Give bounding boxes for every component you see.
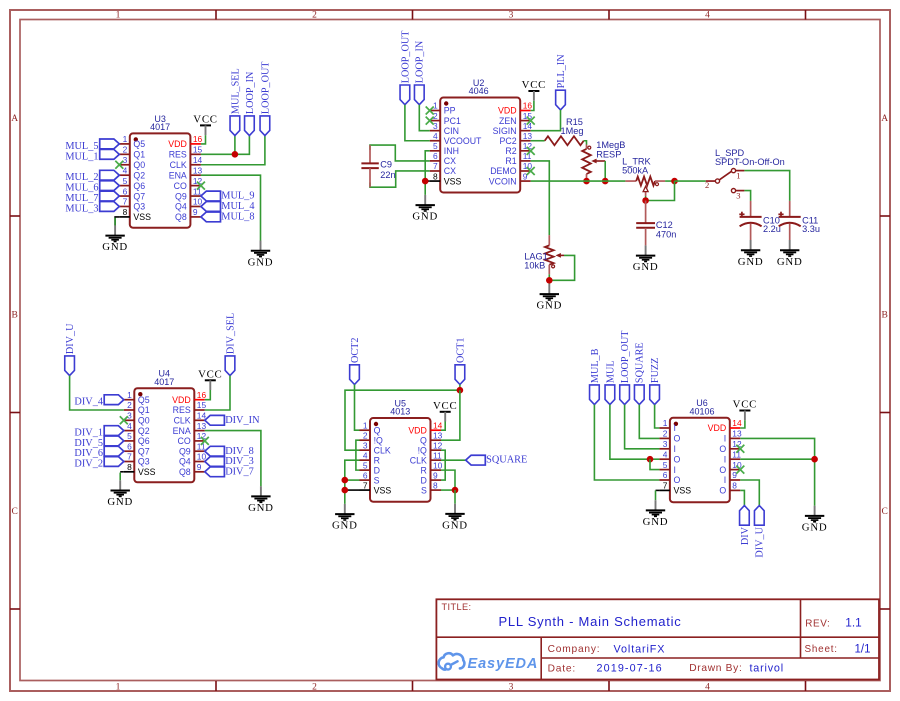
U4 pin 11 (Q9) <box>179 441 206 456</box>
no-connect X U4 pin12 <box>201 437 209 445</box>
svg-text:OCT2: OCT2 <box>350 338 361 363</box>
U2 pin 14 (SIGIN) <box>493 121 533 136</box>
switch L_SPD (SPDT-On-Off-On) <box>705 148 785 200</box>
svg-text:7: 7 <box>123 197 128 207</box>
svg-text:GND: GND <box>777 256 803 268</box>
U5 pin 13 (Q) <box>420 430 443 445</box>
ground LAG1 <box>536 284 562 312</box>
junction RES/MUL_SEL <box>232 151 239 158</box>
svg-text:VDD: VDD <box>708 423 727 433</box>
svg-text:2.2u: 2.2u <box>763 224 781 234</box>
U3 pin 8 (VSS) <box>119 207 151 222</box>
svg-text:2: 2 <box>123 145 128 155</box>
U4 pin 15 (RES) <box>173 400 207 415</box>
svg-text:VCOIN: VCOIN <box>489 176 517 186</box>
svg-text:MUL_7: MUL_7 <box>65 193 98 204</box>
svg-text:O: O <box>674 454 681 464</box>
U2 pin 7 (CX) <box>430 161 456 176</box>
ground U3 ENA <box>248 241 274 269</box>
net flag DIV_U <box>65 323 76 376</box>
U5 pin 3 (CLK) <box>360 440 391 455</box>
U4 pin 3 (Q0) <box>124 411 150 426</box>
junction LTRK right <box>671 178 678 185</box>
svg-text:4017: 4017 <box>150 122 170 132</box>
svg-text:12: 12 <box>433 440 443 450</box>
svg-text:4: 4 <box>663 449 668 459</box>
U4 pin 16 (VDD) <box>172 390 206 405</box>
wire U5 S6 join <box>345 479 360 481</box>
svg-text:PC1: PC1 <box>444 116 461 126</box>
svg-text:Q1: Q1 <box>138 405 150 415</box>
U4 pin 13 (ENA) <box>173 421 207 436</box>
wire LOOP_OUT to VCOOUT <box>405 105 430 141</box>
U2 pin 8 (VSS) <box>430 171 462 186</box>
svg-text:O: O <box>674 475 681 485</box>
wire LOOP_OUT to pin3 <box>625 405 660 449</box>
svg-text:4: 4 <box>705 683 710 693</box>
junction U2 VSS/INH <box>422 178 429 185</box>
U5 pin 2 (!Q) <box>360 430 384 445</box>
svg-text:Q2: Q2 <box>133 170 145 180</box>
net flag MUL_7 <box>65 191 119 204</box>
U2 pin 3 (CIN) <box>430 121 459 136</box>
wire LAG1 bottom <box>548 274 550 284</box>
svg-text:Q9: Q9 <box>179 446 191 456</box>
wire U5 !Q12 to D9 <box>441 450 445 480</box>
wire U6 VDD to VCC <box>740 420 745 428</box>
svg-text:MUL_5: MUL_5 <box>65 141 98 152</box>
svg-text:GND: GND <box>633 261 659 273</box>
svg-text:OCT1: OCT1 <box>455 338 466 363</box>
net flag LOOP_OUT <box>400 30 411 105</box>
U3 pin 14 (CLK) <box>170 155 203 170</box>
wire RESP wiper to rail <box>604 161 606 181</box>
net flag DIV_6 <box>74 446 123 459</box>
svg-text:I: I <box>674 465 676 475</box>
svg-text:2: 2 <box>705 180 709 190</box>
svg-text:REV:: REV: <box>805 619 830 630</box>
net flag DIV_1 <box>74 426 123 439</box>
ground C11 <box>777 240 803 268</box>
wire U4 VDD to VCC <box>205 390 211 400</box>
U6 pin 1 (I) <box>659 418 676 433</box>
U3 pin 15 (RES) <box>169 145 203 160</box>
net flag DIV_SEL <box>225 313 236 376</box>
net flag MUL_B <box>590 348 601 404</box>
svg-text:Q: Q <box>420 435 427 445</box>
IC U2 (4046) <box>430 78 533 193</box>
svg-text:VCC: VCC <box>198 368 222 380</box>
svg-text:3: 3 <box>127 411 132 421</box>
wire OCT1 to Q13 <box>441 390 460 440</box>
svg-text:DEMO: DEMO <box>490 166 517 176</box>
svg-text:13: 13 <box>732 429 742 439</box>
svg-text:CLK: CLK <box>170 160 187 170</box>
power VCC U2 <box>522 79 546 101</box>
svg-text:11: 11 <box>197 441 206 451</box>
U2 pin 16 (VDD) <box>498 101 532 116</box>
svg-text:9: 9 <box>197 462 202 472</box>
svg-text:GND: GND <box>442 520 468 532</box>
wire U6 VSS drop <box>655 490 657 500</box>
svg-text:D: D <box>374 465 380 475</box>
svg-text:VDD: VDD <box>168 139 187 149</box>
svg-text:9: 9 <box>433 470 438 480</box>
net flag DIV_8 <box>205 446 254 457</box>
svg-text:C: C <box>12 507 18 517</box>
svg-text:R2: R2 <box>505 146 516 156</box>
svg-text:3: 3 <box>509 11 514 21</box>
svg-text:Company:: Company: <box>548 644 601 655</box>
net flag DIV_4 <box>74 395 123 408</box>
svg-text:Q1: Q1 <box>133 150 145 160</box>
U4 pin 5 (Q6) <box>124 431 150 446</box>
svg-text:15: 15 <box>197 400 207 410</box>
net flag OCT2 <box>350 338 361 385</box>
net flag MUL_6 <box>65 181 119 194</box>
junction OCT1 node <box>457 387 464 394</box>
svg-text:tarivol: tarivol <box>750 663 784 675</box>
svg-text:3: 3 <box>363 440 368 450</box>
svg-text:11: 11 <box>433 450 442 460</box>
U5 pin 4 (R) <box>360 450 380 465</box>
svg-text:9: 9 <box>732 470 737 480</box>
wire U4 VSS drop <box>119 473 121 481</box>
no-connect X U2 pin1 <box>426 107 434 115</box>
svg-text:GND: GND <box>738 256 764 268</box>
ground U6 VSS <box>643 500 669 528</box>
svg-text:VSS: VSS <box>138 467 156 477</box>
no-connect X U4 pin3 <box>120 416 128 424</box>
U6 pin 10 (O) <box>719 460 742 475</box>
svg-text:4: 4 <box>127 421 132 431</box>
svg-text:Q5: Q5 <box>133 139 145 149</box>
svg-text:DIV_SEL: DIV_SEL <box>225 313 236 354</box>
wire U2 VDD to VCC <box>531 101 534 111</box>
svg-text:MUL_SEL: MUL_SEL <box>230 68 241 114</box>
wire OCT2 to Q1 <box>355 385 360 431</box>
svg-text:Sheet:: Sheet: <box>805 644 838 655</box>
svg-text:14: 14 <box>433 420 443 430</box>
IC U5 (4013) <box>360 398 443 501</box>
title block <box>436 599 879 679</box>
wire pin4 to pin5 <box>650 459 659 469</box>
U2 pin 1 (PP) <box>430 101 456 116</box>
svg-text:2: 2 <box>433 111 438 121</box>
no-connect X U6 pin10 <box>736 466 744 474</box>
wire VCOIN rail <box>531 180 626 182</box>
svg-text:MUL_2: MUL_2 <box>65 172 98 183</box>
wire L_TRK right <box>665 180 674 182</box>
svg-text:16: 16 <box>523 101 533 111</box>
svg-text:VCC: VCC <box>193 114 217 126</box>
U3 pin 10 (Q4) <box>175 197 203 212</box>
svg-text:40106: 40106 <box>689 406 714 416</box>
svg-text:DIV_U: DIV_U <box>755 526 766 557</box>
net flag DIV_U <box>754 506 765 558</box>
svg-text:7: 7 <box>363 480 368 490</box>
wire U6 pin8 to DIV <box>740 490 744 505</box>
no-connect X U3 pin3 <box>115 161 123 169</box>
svg-text:SPDT-On-Off-On: SPDT-On-Off-On <box>715 157 785 167</box>
svg-text:DIV: DIV <box>740 526 751 545</box>
svg-text:SIGIN: SIGIN <box>493 126 517 136</box>
svg-text:LOOP_IN: LOOP_IN <box>415 40 426 83</box>
wire U6 pin11 gnd <box>740 458 814 460</box>
svg-text:11: 11 <box>193 186 202 196</box>
svg-text:I: I <box>724 454 726 464</box>
U4 pin 6 (Q7) <box>124 441 150 456</box>
wire U5 right gnd drop <box>454 490 456 504</box>
svg-text:MUL_B: MUL_B <box>590 348 601 383</box>
net flag MUL_5 <box>65 139 119 152</box>
svg-text:16: 16 <box>193 134 203 144</box>
U3 pin 5 (Q6) <box>119 176 145 191</box>
svg-text:Q3: Q3 <box>133 202 145 212</box>
svg-text:10: 10 <box>433 460 443 470</box>
U3 pin 13 (ENA) <box>169 165 203 180</box>
svg-text:8: 8 <box>433 480 438 490</box>
svg-text:Q3: Q3 <box>138 457 150 467</box>
svg-text:5: 5 <box>433 141 438 151</box>
net flag MUL_8 <box>201 212 255 223</box>
svg-text:GND: GND <box>802 522 828 534</box>
svg-text:6: 6 <box>123 186 128 196</box>
wire PC2 to R15 <box>531 140 545 142</box>
net flag MUL_1 <box>65 149 119 162</box>
wire SQUARE to pin2 <box>639 405 659 439</box>
potentiometer L_TRK (500kA) <box>622 157 665 196</box>
svg-text:11: 11 <box>732 449 741 459</box>
svg-text:1: 1 <box>736 171 740 181</box>
U3 pin 3 (Q0) <box>119 155 145 170</box>
svg-text:RESP: RESP <box>596 149 621 159</box>
U4 pin 8 (VSS) <box>124 462 156 477</box>
potentiometer LAG1 (10kB) <box>524 235 564 274</box>
U5 pin 8 (S) <box>421 480 441 495</box>
svg-text:GND: GND <box>107 496 133 508</box>
junction U6 rightgnd <box>811 456 818 463</box>
svg-text:PP: PP <box>444 106 456 116</box>
svg-text:1: 1 <box>127 390 132 400</box>
wire MUL_B to pin6 <box>594 405 659 480</box>
U2 pin 10 (DEMO) <box>490 161 532 176</box>
svg-text:GND: GND <box>248 256 274 268</box>
svg-text:22n: 22n <box>380 170 395 180</box>
ground U4 ENA <box>248 486 274 514</box>
net flag MUL_2 <box>65 170 119 183</box>
svg-text:9: 9 <box>193 207 198 217</box>
svg-text:RES: RES <box>173 405 191 415</box>
net flag MUL_4 <box>201 201 255 212</box>
U2 pin 2 (PC1) <box>430 111 461 126</box>
U6 pin 13 (I) <box>724 429 742 444</box>
svg-text:R: R <box>421 465 427 475</box>
wire LOOP_IN to CIN <box>419 105 429 131</box>
svg-text:1: 1 <box>433 101 438 111</box>
power VCC U4 <box>198 368 222 390</box>
wire OCT1 to CLK3 <box>345 390 460 450</box>
wire R1 to LAG1 <box>531 161 550 235</box>
net flag MUL_3 <box>65 202 119 215</box>
svg-text:Q0: Q0 <box>133 160 145 170</box>
wire R15 to RESP <box>584 141 587 145</box>
svg-text:8: 8 <box>127 462 132 472</box>
svg-text:14: 14 <box>732 418 742 428</box>
svg-text:VDD: VDD <box>498 106 517 116</box>
U2 pin 4 (VCOOUT) <box>430 131 482 146</box>
wire U3 VSS gnd drop <box>114 218 116 226</box>
wire sw1 to C11 <box>744 171 789 201</box>
wire U4 VSS <box>120 471 124 473</box>
ground U5 left <box>332 504 358 532</box>
net flag DIV <box>740 506 751 546</box>
no-connect X U6 pin12 <box>736 445 744 453</box>
potentiometer RESP (1MegB) <box>582 140 625 181</box>
svg-text:4: 4 <box>433 131 438 141</box>
svg-text:CLK: CLK <box>410 455 427 465</box>
U6 pin 4 (O) <box>659 449 680 464</box>
svg-text:PLL_IN: PLL_IN <box>556 54 567 89</box>
svg-text:CLK: CLK <box>174 416 191 426</box>
U4 pin 4 (Q2) <box>124 421 150 436</box>
capacitor C11 (3.3u) polarized <box>778 201 820 240</box>
ground C10 <box>738 240 764 268</box>
svg-text:Drawn By:: Drawn By: <box>689 663 742 674</box>
wire U3 VSS to GND <box>115 217 119 225</box>
wire U6 VSS <box>656 489 660 491</box>
svg-text:6: 6 <box>433 151 438 161</box>
U6 pin 3 (I) <box>659 439 676 454</box>
svg-text:13: 13 <box>523 131 533 141</box>
U6 pin 2 (O) <box>659 429 680 444</box>
U4 pin 2 (Q1) <box>124 400 150 415</box>
wire U5 R4 down <box>345 460 360 504</box>
svg-text:Q: Q <box>374 425 381 435</box>
net flag DIV_7 <box>205 466 254 477</box>
net flag LOOP_OUT <box>260 61 271 136</box>
U2 pin 9 (VCOIN) <box>489 171 531 186</box>
svg-text:MUL_1: MUL_1 <box>65 151 98 162</box>
svg-text:Date:: Date: <box>548 663 576 674</box>
svg-text:A: A <box>11 114 18 124</box>
svg-text:O: O <box>719 465 726 475</box>
svg-text:5: 5 <box>127 431 132 441</box>
svg-text:1: 1 <box>116 683 121 693</box>
net flag FUZZ <box>650 358 661 405</box>
svg-text:!Q: !Q <box>418 445 427 455</box>
svg-text:CO: CO <box>174 181 187 191</box>
svg-text:CX: CX <box>444 166 456 176</box>
wire U2 VSS join <box>425 180 430 182</box>
svg-text:7: 7 <box>663 481 668 491</box>
wire U5 R10 down <box>441 470 455 490</box>
svg-text:CIN: CIN <box>444 126 459 136</box>
svg-text:3: 3 <box>736 191 740 201</box>
svg-text:VSS: VSS <box>374 485 392 495</box>
svg-text:VCC: VCC <box>433 400 457 412</box>
svg-text:GND: GND <box>412 211 438 223</box>
svg-text:GND: GND <box>248 502 274 514</box>
net flag PLL_IN <box>556 54 567 110</box>
svg-text:LOOP_OUT: LOOP_OUT <box>400 30 411 83</box>
power VCC U5 <box>433 400 457 422</box>
wire U5 S8 join <box>441 489 455 491</box>
wire MUL to pin4 <box>610 405 660 460</box>
net flag LOOP_IN <box>245 71 256 136</box>
svg-text:1: 1 <box>663 418 668 428</box>
svg-text:3: 3 <box>509 683 514 693</box>
ground U3 VSS <box>102 225 128 253</box>
no-connect X U3 pin12 <box>197 182 205 190</box>
wire U2 INH down <box>425 151 430 195</box>
svg-text:3: 3 <box>123 155 128 165</box>
U4 pin 10 (Q4) <box>179 452 207 467</box>
U4 pin 1 (Q5) <box>124 390 150 405</box>
U4 pin 14 (CLK) <box>174 411 207 426</box>
svg-text:10kB: 10kB <box>524 260 545 270</box>
svg-text:4: 4 <box>123 165 128 175</box>
svg-text:GND: GND <box>536 300 562 312</box>
wire U5 VSS join <box>345 489 360 491</box>
svg-text:4: 4 <box>705 11 710 21</box>
svg-text:PLL Synth - Main Schematic: PLL Synth - Main Schematic <box>499 614 682 629</box>
wire LAG1 wiper loop <box>549 255 574 280</box>
svg-text:LOOP_OUT: LOOP_OUT <box>260 61 271 114</box>
wire U4 ENA to GND <box>205 431 261 487</box>
capacitor C10 (2.2u) polarized <box>739 201 781 240</box>
U2 pin 6 (CX) <box>430 151 456 166</box>
svg-text:CLK: CLK <box>374 445 391 455</box>
U3 pin 4 (Q2) <box>119 165 145 180</box>
svg-text:VCOOUT: VCOOUT <box>444 136 482 146</box>
ground C12 <box>633 245 659 273</box>
svg-text:DIV_4: DIV_4 <box>74 397 103 408</box>
svg-text:4046: 4046 <box>469 86 489 96</box>
no-connect X U2 pin2 <box>426 117 434 125</box>
net flag MUL_SEL <box>230 68 241 135</box>
svg-text:Q6: Q6 <box>133 181 145 191</box>
net flag LOOP_OUT <box>620 330 631 405</box>
U6 pin 6 (O) <box>659 470 680 485</box>
svg-text:S: S <box>374 475 380 485</box>
U5 pin 14 (VDD) <box>408 420 442 435</box>
U3 pin 11 (Q9) <box>175 186 202 201</box>
svg-text:GND: GND <box>643 516 669 528</box>
svg-text:B: B <box>12 311 18 321</box>
svg-text:Q4: Q4 <box>179 457 191 467</box>
U2 pin 5 (INH) <box>430 141 459 156</box>
svg-text:DIV_IN: DIV_IN <box>225 415 260 426</box>
U5 pin 11 (CLK) <box>410 450 442 465</box>
svg-text:6: 6 <box>363 470 368 480</box>
svg-text:Q6: Q6 <box>138 436 150 446</box>
svg-text:D: D <box>421 475 427 485</box>
svg-text:2: 2 <box>312 683 317 693</box>
junction U5 VSS <box>342 487 349 494</box>
svg-text:Q9: Q9 <box>175 191 187 201</box>
svg-text:500kA: 500kA <box>622 165 649 175</box>
svg-text:5: 5 <box>123 176 128 186</box>
svg-text:I: I <box>674 444 676 454</box>
wire U3 CLK net <box>201 136 265 165</box>
wire U6 pin13 gnd <box>740 438 814 505</box>
svg-text:8: 8 <box>433 171 438 181</box>
U6 pin 12 (O) <box>719 439 742 454</box>
svg-text:8: 8 <box>123 207 128 217</box>
U5 pin 12 (!Q) <box>418 440 443 455</box>
wire sw3 to C10 <box>744 191 750 201</box>
